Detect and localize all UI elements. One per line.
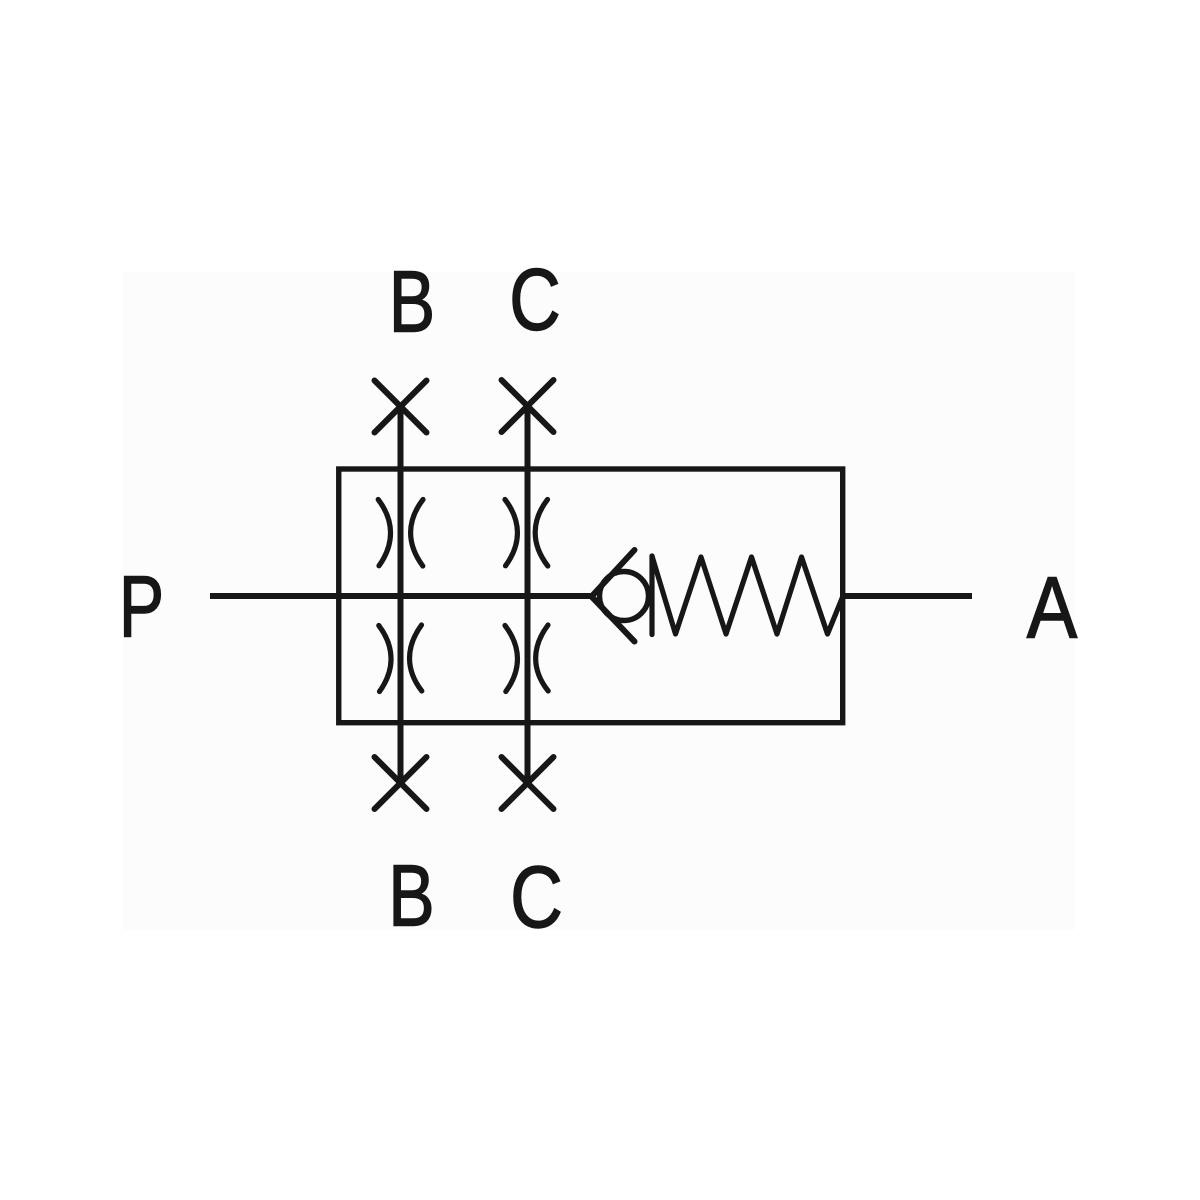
check valve ball — [600, 572, 649, 621]
wire P horizontal — [210, 593, 592, 599]
orifice restriction, lower line B — [379, 625, 422, 692]
spring zigzag — [652, 556, 843, 634]
orifice restriction, upper line C — [505, 500, 548, 567]
wire B vertical — [398, 407, 404, 784]
valve body rectangle — [339, 469, 843, 723]
orifice restriction, lower line C — [505, 625, 548, 692]
svg-text:A: A — [1027, 560, 1078, 657]
check valve seat — [592, 550, 635, 642]
wire C vertical — [525, 407, 531, 784]
svg-text:P: P — [119, 557, 164, 655]
closed port X, top of line C — [502, 380, 554, 432]
wire A horizontal — [843, 593, 972, 599]
closed port X, top of line B — [375, 381, 427, 433]
closed port X, bottom of line C — [502, 757, 554, 809]
spring end bar — [649, 556, 654, 635]
svg-text:C: C — [509, 251, 561, 348]
scanned sheet background — [123, 272, 1075, 930]
orifice restriction, upper line B — [378, 500, 423, 567]
svg-text:C: C — [510, 849, 563, 946]
closed port X, bottom of line B — [375, 757, 427, 809]
svg-text:B: B — [389, 253, 435, 350]
svg-text:B: B — [388, 847, 434, 944]
